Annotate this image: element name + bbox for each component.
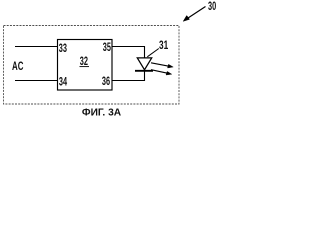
svg-text:34: 34 bbox=[59, 76, 68, 89]
svg-text:33: 33 bbox=[59, 42, 68, 55]
svg-text:36: 36 bbox=[102, 76, 111, 89]
wire pin 36 to LED cathode bbox=[112, 71, 145, 81]
LED emission arrow lower bbox=[151, 70, 172, 75]
wire AC top to pin 33 bbox=[15, 46, 58, 48]
svg-text:30: 30 bbox=[208, 0, 216, 13]
wire AC bottom to pin 34 bbox=[15, 80, 58, 82]
block U 32 bbox=[58, 40, 113, 91]
svg-text:35: 35 bbox=[103, 42, 112, 55]
leader arrow to 30 bbox=[183, 7, 205, 22]
leader line to label 31 bbox=[147, 49, 159, 57]
wire pin 35 to LED anode bbox=[112, 47, 145, 59]
LED emission arrow upper bbox=[151, 63, 173, 68]
dashed enclosure box 30 bbox=[4, 26, 180, 105]
svg-text:AC: AC bbox=[12, 61, 24, 74]
LED D 31 bbox=[135, 58, 153, 71]
svg-text:31: 31 bbox=[159, 40, 169, 53]
svg-text:ФИГ. 3А: ФИГ. 3А bbox=[82, 108, 122, 119]
